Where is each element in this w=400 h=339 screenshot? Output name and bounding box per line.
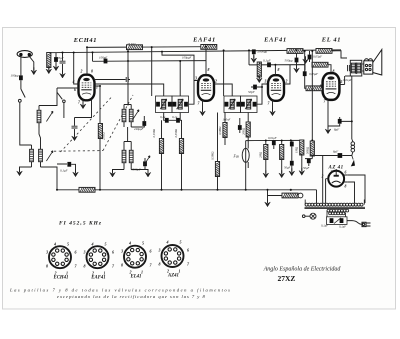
svg-text:8: 8 [46,264,48,269]
wire bus to transformer [316,190,318,203]
switch fuse parts [330,218,344,224]
resistor top right R5 [287,49,303,54]
wire bottom bus [57,189,317,191]
trimmer L2 [46,151,53,161]
wire V2 plate [214,84,233,96]
mains plug [362,222,371,226]
wire R6 to OT [332,51,347,58]
switch arm [21,89,25,98]
svg-text:2: 2 [285,80,288,84]
wire OT to speaker [362,64,364,71]
ground V2 cathode [200,108,206,115]
svg-text:8: 8 [84,264,86,269]
IFT2 box [224,96,257,113]
resistor mid vert R8 [247,137,249,168]
svg-text:4: 4 [53,242,56,247]
junction dot [290,189,292,191]
capacitor 50pF grid [251,85,262,90]
svg-text:8: 8 [121,263,123,268]
svg-text:Anglo Española de Electricidad: Anglo Española de Electricidad [263,267,342,273]
svg-text:3: 3 [264,80,267,84]
wire V1 pin7 cathode [82,100,84,105]
ground grid cap [60,71,66,78]
capacitor 4000pF [143,158,147,170]
coil L2 antenna [30,145,43,167]
svg-text:100pF: 100pF [99,56,107,60]
resistor R antenna [47,53,51,70]
resistor IFT2 down [246,113,250,138]
wire fuse to bus [245,170,247,190]
tube V1 ECH41 [79,75,95,101]
svg-text:25 KΩ: 25 KΩ [127,42,136,46]
pin labels V4 [320,70,343,104]
wire L1 to L2 [39,123,41,145]
capacitor 8uF second [338,153,343,158]
svg-text:6: 6 [75,250,77,255]
capacitor osc grid [94,77,130,82]
svg-text:6: 6 [150,249,152,254]
svg-text:100μμF: 100μμF [182,56,192,60]
switch S1b [57,93,65,119]
wire L2 right [41,164,68,190]
wire osc vertical [127,51,129,105]
svg-text:4: 4 [128,241,131,246]
svg-text:FI 452,5 KHz: FI 452,5 KHz [59,221,102,227]
capacitor 100pF [19,75,23,80]
svg-text:6: 6 [320,84,322,88]
svg-text:ECH41: ECH41 [53,276,69,281]
resistor bottom bus R4 [79,187,95,192]
svg-text:6: 6 [345,171,347,175]
capacitor pin6 bypass [72,118,78,137]
svg-text:5: 5 [67,242,69,247]
wire IFT2 B feed [223,50,225,96]
wire L1 top [39,88,57,106]
svg-text:EAF41: EAF41 [90,276,105,281]
resistor el grid2 [306,86,322,91]
ground c4 [299,168,305,175]
capacitor 500pF [54,53,58,67]
wire bus B [49,50,342,53]
node dots [56,46,353,191]
capacitor mid c1 [272,140,276,149]
tube V5 AZ41 [328,171,344,187]
pin labels V3 [264,68,288,106]
wire IFT1 primary top [94,84,164,96]
coil L3 oscillator [122,105,133,128]
ground V1 cathode [80,101,86,108]
tube V3 EAF41 [268,75,284,101]
svg-text:5: 5 [142,241,144,246]
svg-text:Fus: Fus [233,155,240,159]
svg-text:8μF: 8μF [333,150,338,154]
wire right vert [344,76,346,85]
svg-text:exceptuando las de la rectific: exceptuando las de la rectificadora que … [57,294,206,299]
capacitor osc pad [131,116,146,127]
fuse F [242,146,249,165]
wire V3 pin7 [272,100,274,112]
wire V4 grid left [303,51,323,88]
wire osc link [92,53,94,62]
trimmer L4 [143,156,150,166]
IFT2 trimmers [229,99,252,109]
resistor bus A R2 [127,45,143,50]
ground cap L2 [73,169,79,176]
ground L4 left [110,170,116,177]
wire V3 top pin [274,65,276,75]
wire V4 plate right [339,84,345,86]
wire antenna right lead [29,56,34,70]
tube V4 EL41 [323,73,340,100]
dial lamp [302,213,316,219]
OT coils [351,63,360,75]
trimmer L3 [132,110,139,120]
wire antenna left lead [20,56,22,75]
svg-text:20KΩ: 20KΩ [242,127,246,135]
tube V2 EAF41 [198,75,214,101]
socket S1 ECH41 [49,246,71,268]
socket S2 pin numbers [83,242,116,276]
resistor coupling vert [257,62,263,83]
svg-text:4: 4 [91,242,94,247]
wire V2 pin7 [202,100,204,112]
capacitor 8uF electrolytic [328,117,352,126]
resistor mid R9 [264,141,268,174]
svg-text:4000pF: 4000pF [131,168,141,172]
svg-text:8: 8 [159,262,161,267]
resistor IFT1 left down [159,120,163,190]
wire to mains [347,221,362,225]
svg-text:8μF: 8μF [334,128,339,132]
wire B+ vertical to choke [351,76,353,139]
IFT1 trimmers [160,99,183,109]
wire L2 feed [20,102,32,145]
wire V1 pin1 plate [94,86,100,190]
resistor output line [268,190,299,198]
pin labels V1 [72,70,99,105]
capacitor c4 [302,158,313,171]
ground cap bus [251,55,257,62]
svg-text:3: 3 [45,250,48,255]
wire az pin2 down [323,156,326,204]
resistor mid R10 [280,141,284,174]
capacitor mid c2 [290,141,294,151]
svg-text:8: 8 [278,68,280,72]
svg-text:8: 8 [91,70,93,74]
socket S3 EL41 [124,246,146,268]
wire L4 grounds [113,170,149,173]
resistor mid R12 [310,135,314,159]
svg-text:50μF: 50μF [284,166,291,170]
IFT2 caps [225,102,257,107]
choke coil [351,139,355,156]
wire R7 to tube top [328,65,331,74]
svg-text:4: 4 [72,80,75,84]
wire V1 aux down [75,99,92,118]
wire screen feed [311,51,313,135]
svg-text:50μF: 50μF [303,166,310,170]
svg-text:Las patillas 7 y 8 de todas la: Las patillas 7 y 8 de todas las válvulas… [9,288,232,293]
switch box [327,217,348,225]
resistor IFT1 right down [179,120,183,190]
svg-text:27XZ: 27XZ [278,274,296,283]
resistor bus A R3 [201,45,217,50]
capacitor 0,05 el [308,51,312,62]
svg-text:8: 8 [345,185,347,189]
wire V4 pin7 [327,100,329,129]
resistor het [223,113,227,146]
svg-text:8: 8 [333,70,335,74]
node busA dot [151,46,153,48]
svg-text:4: 4 [166,240,169,245]
svg-text:2: 2 [214,80,217,84]
wire bus A [87,46,206,49]
svg-text:50KΩ: 50KΩ [305,146,309,154]
svg-text:25KΩ: 25KΩ [102,132,106,140]
resistor el grid horizontal [312,62,328,67]
svg-text:6: 6 [74,88,76,92]
capacitor osc series [104,59,108,64]
wire coupling line [249,50,305,70]
svg-text:AZ41: AZ41 [167,274,179,279]
svg-text:05μF: 05μF [57,56,64,60]
trimmer L1 [46,111,53,121]
capacitor 0,1uF L2 [67,162,75,173]
coil L4 osc sec [122,127,133,170]
svg-text:6: 6 [112,250,114,255]
wire B+ out line [312,155,352,157]
ground jack [265,199,271,206]
svg-text:EAF41: EAF41 [192,37,216,44]
wire V2 grid left [162,52,199,105]
wire V1 pin4 [74,53,79,85]
wire IFT2 secondary out [257,84,269,104]
node terminal [18,99,21,102]
output transformer box [350,60,362,76]
socket S2 EAF41 [87,246,109,268]
pin labels AZ41 [321,171,347,189]
capacitor coupling series [267,62,271,67]
ground L4 right [145,170,151,177]
svg-text:3: 3 [120,249,123,254]
svg-text:50pF: 50pF [248,90,255,94]
IFT2 coils [230,99,251,109]
svg-text:5: 5 [105,242,107,247]
ground cap el [303,56,309,63]
svg-text:5: 5 [180,240,182,245]
socket S4 pin numbers [158,240,191,274]
wire jack ground [267,196,269,203]
ground R antenna [46,66,52,73]
svg-text:8: 8 [208,68,210,72]
svg-text:EL41: EL41 [130,275,142,280]
node jack [298,193,303,198]
arrow tap [351,156,355,167]
svg-text:EAF41: EAF41 [263,37,287,44]
resistor mid R11 [300,140,304,159]
wire to switch [20,80,22,89]
wire V3 plate right [284,65,290,84]
wire V1 pin6 [57,87,79,89]
dashed gang link [54,95,133,152]
wire mid bus [246,139,304,141]
capacitor 2000 bus [252,49,256,58]
wire fuse top [245,141,247,170]
svg-text:2000μμ: 2000μμ [258,50,268,54]
svg-text:3: 3 [158,248,161,253]
wire az pin6 to transformer right [348,175,365,203]
wire grid cap branch [60,53,66,74]
capacitor mid c3 50pF [290,150,294,172]
ground c3 [289,168,295,175]
ground V3 cathode [270,108,276,115]
ground L2 [17,168,23,175]
power transformer primary [305,200,366,217]
svg-text:1MΩ: 1MΩ [295,146,299,153]
svg-text:1: 1 [96,86,98,90]
wire L2 left ground [20,167,32,172]
wire IFT1 B feed [151,47,153,96]
pin labels V2 [194,68,217,106]
svg-text:240μμF: 240μμF [134,127,144,131]
wire oscillator line [93,60,207,63]
resistor top right R6 [316,49,332,54]
IFT1 coils [162,99,183,109]
svg-text:100μμ: 100μμ [11,74,19,78]
wire az pin8 to transformer [348,182,355,203]
capacitor IFT1 lower caps [164,113,182,123]
wire AZ41 pins [326,169,348,182]
ground antenna [31,67,37,74]
svg-text:3: 3 [194,77,197,81]
svg-text:500μμ: 500μμ [285,59,293,63]
socket S3 pin numbers [120,241,153,275]
svg-text:100nF: 100nF [223,118,231,122]
coil L1 RF [37,106,41,129]
capacitor 500uu grid [294,50,300,72]
capacitor mid [238,118,242,133]
svg-text:6: 6 [187,248,189,253]
svg-text:2: 2 [80,70,83,74]
svg-text:3: 3 [83,250,86,255]
wire IFT1 sec top [179,61,181,96]
capacitor OT [348,65,350,71]
antenna A1 [17,51,32,58]
socket S4 AZ41 [162,245,184,267]
speaker cone [373,50,382,76]
svg-text:2MΩ: 2MΩ [259,151,263,158]
ground V4 cathode [325,126,331,133]
ground R10 [279,170,285,177]
ground cap500 [53,63,59,70]
resistor det load [215,113,219,190]
wire V1 grid from bus A [86,47,88,74]
speaker body [364,59,373,74]
wire V2 top pin [205,47,207,75]
svg-text:ECH41: ECH41 [73,37,97,44]
socket S1 pin numbers [45,242,78,276]
resistor cathode R1 [98,124,102,139]
svg-text:EL 41: EL 41 [321,37,341,44]
IFT1 caps [156,102,188,107]
wire V4 plate to OT [345,75,350,77]
IFT1 box [156,96,189,113]
ground R9 [263,170,269,177]
ground pin6 cap [72,133,78,140]
